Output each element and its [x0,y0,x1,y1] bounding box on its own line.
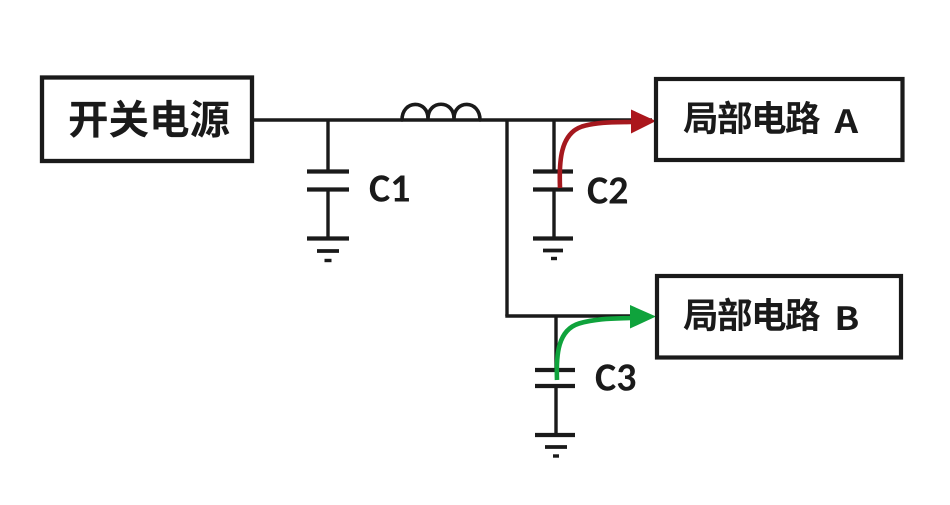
ground for C3 [535,435,575,456]
label C2 [588,177,627,204]
label C1 [370,175,409,202]
label C3 [596,364,636,391]
label 局部电路 B [684,298,858,332]
box: switching power supply [42,78,252,162]
capacitor C1 [307,120,349,237]
wire: vertical branch at junction [505,120,508,316]
ground for C2 [533,239,573,259]
box: local circuit A [656,79,903,160]
wire: horizontal branch to circuit B [505,314,650,317]
green arrow: noise path from C3 into circuit B [557,305,656,380]
capacitor C3 [535,316,575,433]
inductor L1 [402,104,480,120]
box: local circuit B [657,276,901,358]
label 开关电源 [70,100,230,138]
capacitor C2 [533,120,573,237]
label 局部电路 A [684,101,859,135]
ground for C1 [307,239,349,261]
red arrow: noise path from C2 into circuit A [560,110,656,189]
wire: main horizontal from power supply to circuit A [254,118,652,121]
